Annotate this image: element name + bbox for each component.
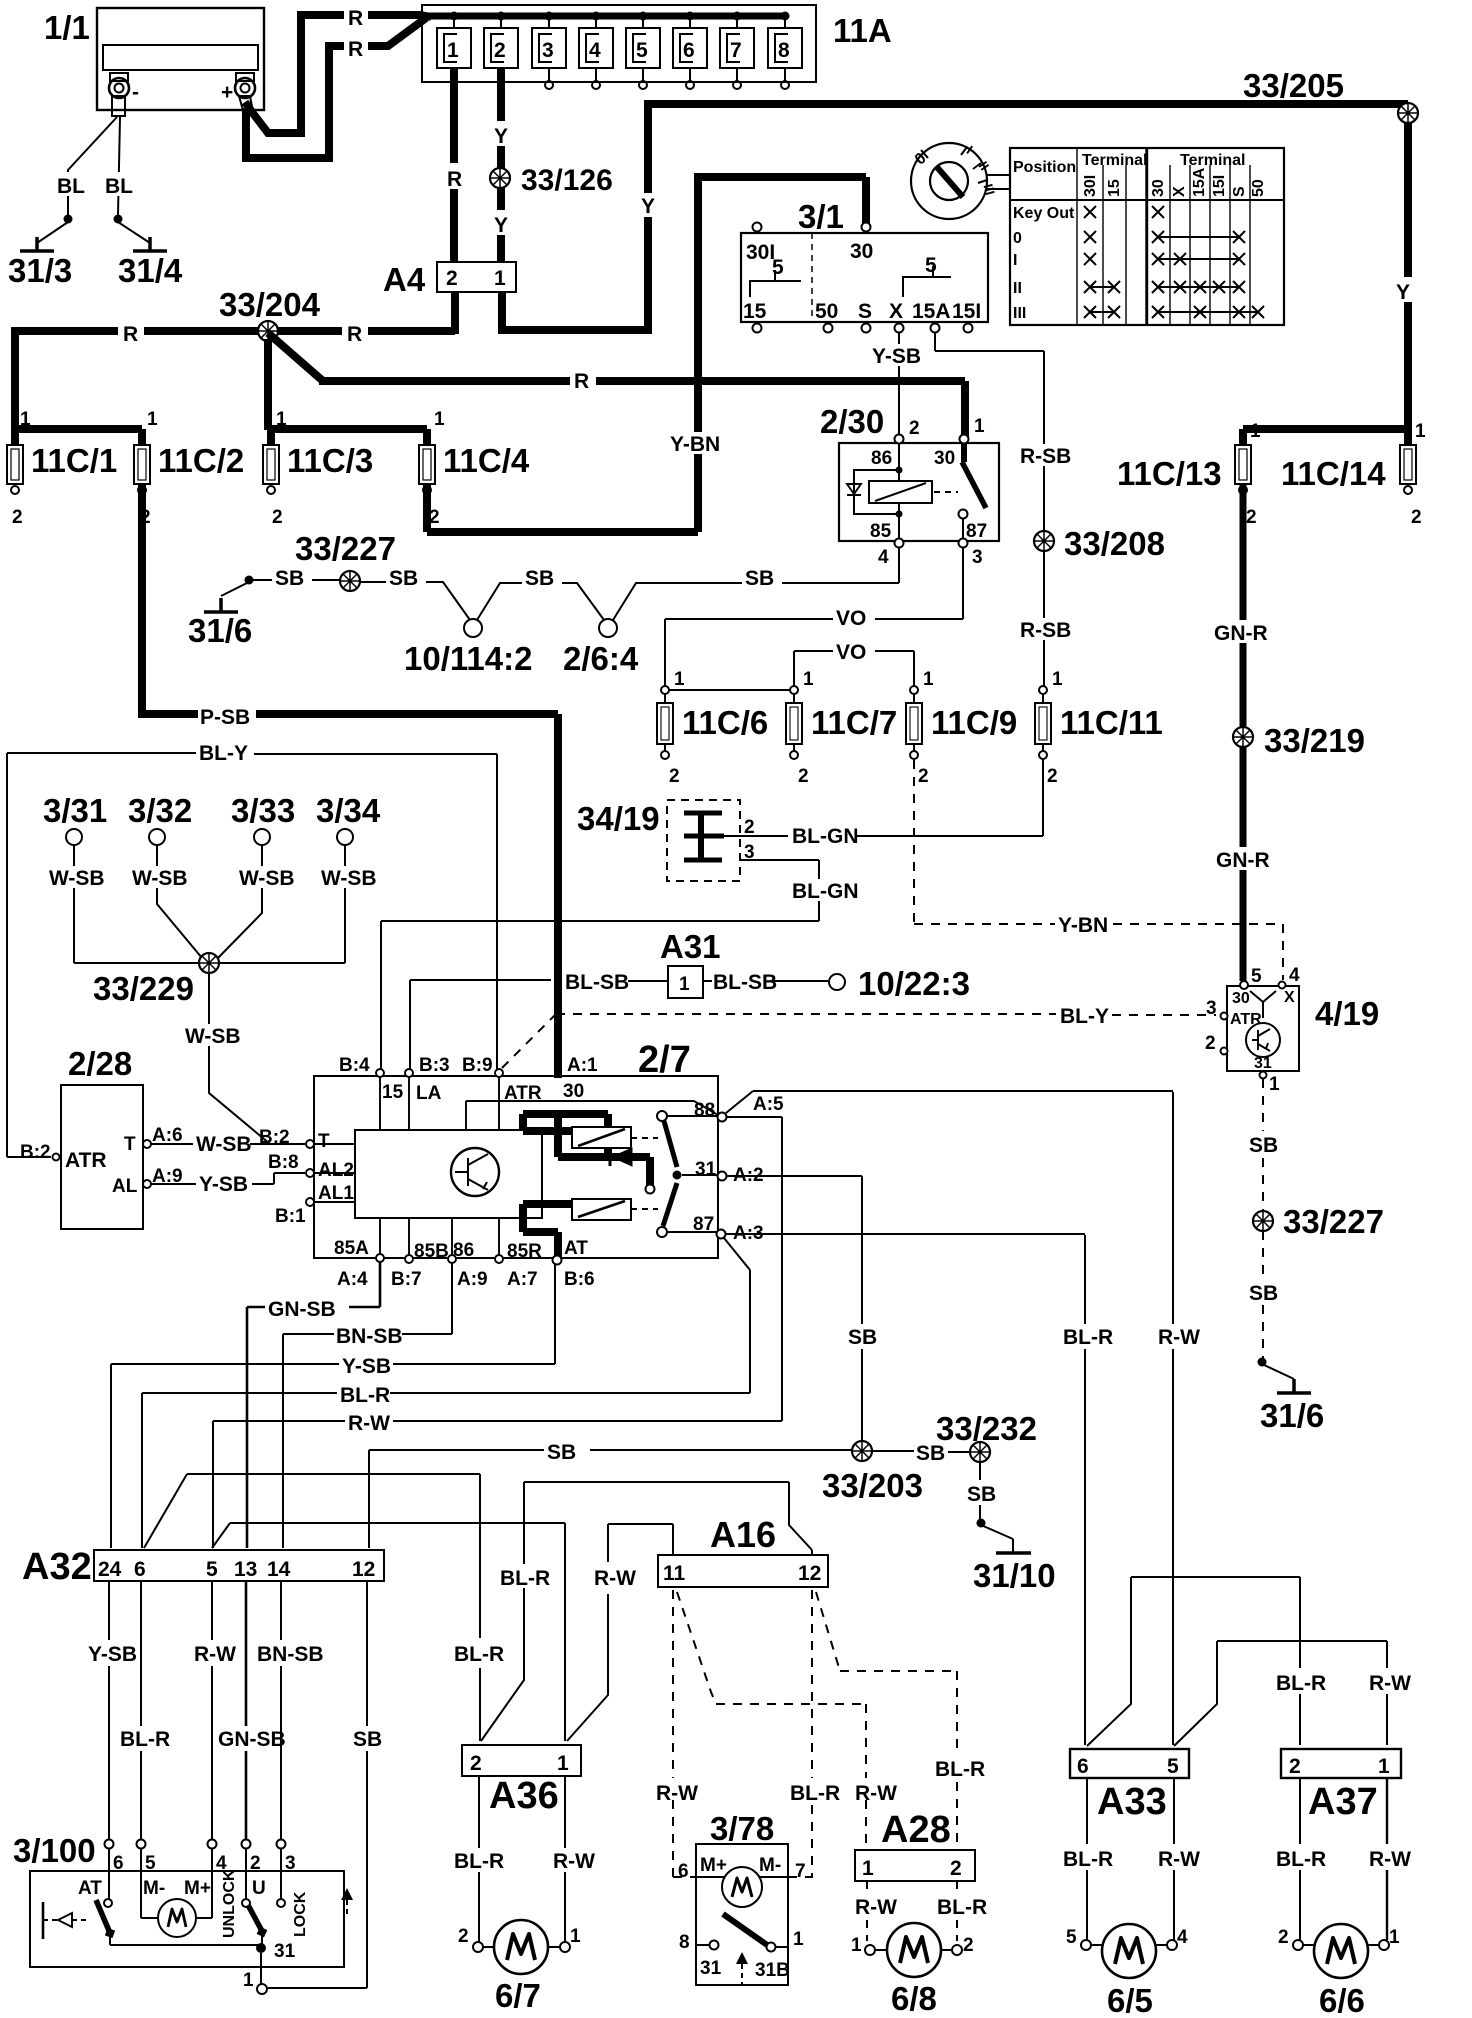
svg-text:SB: SB [353, 1728, 382, 1751]
ignition position table [1010, 148, 1284, 325]
svg-text:BL-R: BL-R [500, 1567, 550, 1590]
svg-text:86: 86 [871, 448, 892, 469]
wire R bus left [15, 327, 455, 335]
svg-text:11C/7: 11C/7 [811, 704, 897, 741]
svg-text:Y-BN: Y-BN [1058, 914, 1108, 937]
svg-text:33/227: 33/227 [1283, 1203, 1384, 1240]
svg-text:U: U [252, 1878, 266, 1899]
svg-text:M+: M+ [184, 1878, 211, 1899]
svg-text:2: 2 [1289, 1755, 1301, 1778]
svg-text:11C/9: 11C/9 [931, 704, 1017, 741]
wire R-W A32 pin5 to 3/100 pin4 [211, 1581, 213, 1839]
svg-text:30: 30 [934, 448, 955, 469]
svg-text:1: 1 [243, 1970, 254, 1991]
svg-text:8: 8 [778, 39, 790, 62]
splice 33/204 [258, 321, 278, 341]
svg-text:33/208: 33/208 [1064, 525, 1165, 562]
svg-text:13: 13 [234, 1558, 257, 1581]
wire R-W dashed A16 pin11 to A28 pin1 [677, 1592, 866, 1848]
svg-text:W-SB: W-SB [185, 1025, 241, 1048]
svg-text:X: X [1284, 989, 1295, 1006]
svg-text:VO: VO [836, 607, 866, 630]
svg-text:T: T [318, 1131, 330, 1152]
svg-text:4: 4 [1177, 1927, 1188, 1948]
svg-text:2: 2 [744, 817, 755, 838]
wire SB 33/232 to ground 31/10 [979, 1462, 981, 1520]
svg-text:A16: A16 [710, 1514, 776, 1555]
svg-text:BL: BL [105, 175, 133, 198]
svg-text:R-W: R-W [553, 1850, 595, 1873]
svg-text:BL-GN: BL-GN [792, 880, 859, 903]
wire R-W A33 pin5 to motor 6/5 [1173, 1778, 1175, 1940]
svg-text:31: 31 [1254, 1055, 1272, 1072]
svg-text:BL-SB: BL-SB [565, 971, 629, 994]
svg-text:AT: AT [564, 1238, 588, 1259]
svg-text:2/28: 2/28 [68, 1045, 132, 1082]
motor 6/7 [458, 1920, 581, 2014]
wire R fuse1 to A4 pin2 [450, 68, 458, 262]
svg-text:BL-SB: BL-SB [713, 971, 777, 994]
svg-text:1: 1 [447, 39, 459, 62]
svg-text:A:4: A:4 [337, 1269, 368, 1290]
fuse 11C/9 [906, 669, 1017, 787]
fuse 11C/6 [657, 669, 768, 787]
module 34/19 [577, 800, 755, 881]
node battery- left [64, 215, 73, 224]
wire R-W A36 pin1 to motor 6/7 [564, 1776, 566, 1942]
svg-text:11C/14: 11C/14 [1281, 455, 1386, 492]
svg-text:B:1: B:1 [275, 1206, 306, 1227]
fuse 11A:5 [626, 12, 660, 90]
connector A4 [383, 261, 516, 298]
svg-text:1: 1 [679, 974, 690, 995]
module 3/100 [13, 1832, 353, 1994]
svg-text:85R: 85R [507, 1241, 542, 1262]
svg-text:31: 31 [274, 1941, 296, 1962]
svg-text:BL-R: BL-R [937, 1896, 987, 1919]
svg-text:P-SB: P-SB [200, 706, 250, 729]
svg-text:M+: M+ [700, 1855, 727, 1876]
ring terminal 10/114:2 [464, 619, 482, 637]
svg-text:4: 4 [1289, 965, 1300, 986]
connector A28 [855, 1809, 975, 1881]
svg-text:15I: 15I [952, 300, 981, 323]
svg-text:1: 1 [803, 669, 814, 690]
svg-text:T: T [124, 1134, 136, 1155]
svg-text:10/22:3: 10/22:3 [858, 965, 970, 1002]
svg-text:6/6: 6/6 [1319, 1982, 1365, 2018]
svg-text:1: 1 [1378, 1755, 1390, 1778]
svg-text:11C/6: 11C/6 [682, 704, 768, 741]
svg-text:1/1: 1/1 [44, 9, 90, 46]
wire BN-SB 2/7 A:9 to A32 pin14 [283, 1263, 452, 1548]
svg-text:33/219: 33/219 [1264, 722, 1365, 759]
wire SB 2/7 A:2 to splice 33/203 [727, 1176, 862, 1448]
wire R-W 2/7 A:5 to A33 column [726, 1091, 1173, 1745]
fuse 11A:8 [768, 12, 802, 90]
svg-text:Terminal: Terminal [1180, 152, 1246, 169]
svg-text:2: 2 [250, 1853, 261, 1874]
ignition key symbol [911, 143, 1010, 219]
svg-text:1: 1 [862, 1857, 874, 1880]
svg-text:R-W: R-W [855, 1896, 897, 1919]
ring terminal 10/22:3 [829, 974, 845, 990]
thick bus 30 to links [523, 1114, 650, 1258]
svg-text:30I: 30I [746, 241, 775, 264]
svg-text:R: R [574, 370, 589, 393]
table X marks [1084, 206, 1264, 318]
svg-text:30: 30 [1150, 179, 1167, 197]
svg-text:10/114:2: 10/114:2 [404, 640, 532, 677]
svg-text:5: 5 [1167, 1755, 1179, 1778]
svg-text:W-SB: W-SB [239, 867, 295, 890]
svg-text:LOCK: LOCK [292, 1891, 309, 1937]
wire SB ground 31/6 to relay pin4 [252, 547, 899, 620]
fuse 11A:3 [532, 12, 566, 90]
wire R-W A33 pin5 to A37 pin1 jog [1174, 1641, 1387, 1746]
wire BL-R row to A32 pin6 [142, 1393, 750, 1548]
fuse 11C/3 [263, 409, 373, 528]
svg-text:R-SB: R-SB [1020, 619, 1071, 642]
svg-text:B:3: B:3 [419, 1055, 450, 1076]
svg-text:6: 6 [678, 1861, 689, 1882]
svg-text:BL-R: BL-R [790, 1782, 840, 1805]
svg-text:2: 2 [918, 766, 929, 787]
svg-text:11A: 11A [833, 12, 892, 49]
wire GN-SB 2/7 A:4 to A32 pin13 [247, 1262, 380, 1548]
svg-text:5: 5 [925, 254, 937, 277]
splice 33/205 [1398, 103, 1418, 123]
wire W-SB 3/31 [74, 845, 199, 963]
wire Y-BN dashed 11C/9 to 4/19 pin4 [914, 760, 1283, 980]
svg-text:6/7: 6/7 [495, 1977, 541, 2014]
svg-text:3/34: 3/34 [316, 792, 381, 829]
svg-text:UNLOCK: UNLOCK [221, 1869, 238, 1938]
svg-text:B:8: B:8 [268, 1152, 299, 1173]
svg-text:B:4: B:4 [339, 1055, 370, 1076]
svg-text:2: 2 [1278, 1927, 1289, 1948]
svg-text:11C/1: 11C/1 [31, 442, 117, 479]
svg-text:50: 50 [815, 300, 838, 323]
svg-text:A:6: A:6 [152, 1125, 183, 1146]
wire BN-SB A32 pin14 to 3/100 pin3 [280, 1581, 282, 1839]
svg-text:31/10: 31/10 [973, 1557, 1056, 1594]
svg-text:-: - [132, 81, 139, 104]
svg-text:2: 2 [950, 1857, 962, 1880]
svg-text:1: 1 [1269, 1074, 1280, 1095]
node SB at 31/6 [245, 576, 254, 585]
svg-text:7: 7 [730, 39, 742, 62]
svg-text:R-W: R-W [348, 1412, 390, 1435]
splice 33/208 [1034, 531, 1054, 551]
svg-text:31/3: 31/3 [8, 252, 72, 289]
wire BL battery- left [68, 117, 117, 215]
svg-text:A31: A31 [660, 928, 721, 965]
wire W-SB 3/32 [157, 845, 202, 958]
svg-text:1: 1 [494, 267, 506, 290]
svg-text:1: 1 [557, 1752, 569, 1775]
wire R-W dashed A16 pin11 to 3/78 pin6 [673, 1590, 698, 1877]
wire Y-SB 2/28 AL to 2/7 AL2 [151, 1173, 305, 1184]
svg-text:SB: SB [848, 1326, 877, 1349]
wire R down to 11C/1 [15, 327, 142, 430]
svg-text:BN-SB: BN-SB [257, 1643, 324, 1666]
wire BL-R A32 pin6 to 3/100 pin5 [140, 1581, 142, 1839]
svg-text:30: 30 [1232, 990, 1250, 1007]
svg-text:Y-SB: Y-SB [88, 1643, 137, 1666]
svg-text:SB: SB [1249, 1282, 1278, 1305]
wire Y-SB 3/1 pinX to relay 2/30 pin2 [898, 332, 900, 435]
wire BL-Y dashed 2/7 B:9 to 4/19 pin3 [502, 1014, 1216, 1068]
svg-text:3: 3 [285, 1853, 296, 1874]
svg-text:Y: Y [1396, 281, 1410, 304]
svg-text:BN-SB: BN-SB [336, 1325, 403, 1348]
svg-text:LA: LA [416, 1083, 442, 1104]
svg-text:33/205: 33/205 [1243, 67, 1344, 104]
wire W-SB 33/229 to 2/7 T [209, 973, 305, 1144]
svg-text:BL-R: BL-R [120, 1728, 170, 1751]
fuse 11A:4 [579, 12, 613, 90]
svg-text:1: 1 [434, 409, 445, 430]
svg-text:2: 2 [669, 766, 680, 787]
wire VO relay pin3 to 11C/6 [665, 548, 963, 686]
svg-text:R-W: R-W [656, 1782, 698, 1805]
svg-text:85A: 85A [334, 1238, 369, 1259]
svg-text:W-SB: W-SB [132, 867, 188, 890]
svg-text:1: 1 [570, 1926, 581, 1947]
svg-text:4/19: 4/19 [1315, 995, 1379, 1032]
fuse 11C/4 [419, 409, 530, 528]
svg-text:S: S [1231, 186, 1248, 197]
svg-text:R-W: R-W [1158, 1848, 1200, 1871]
svg-text:1: 1 [276, 409, 287, 430]
svg-text:W-SB: W-SB [49, 867, 105, 890]
svg-text:R-W: R-W [1369, 1672, 1411, 1695]
wire W-SB 3/34 [219, 845, 345, 963]
svg-text:3/33: 3/33 [231, 792, 295, 829]
svg-text:ATR: ATR [1230, 1011, 1262, 1028]
svg-text:W-SB: W-SB [321, 867, 377, 890]
wire BL-R dashed A28 pin2 to motor 6/8 [956, 1881, 958, 1941]
svg-text:30: 30 [850, 240, 873, 263]
diode inside 2/7 [612, 1148, 632, 1166]
svg-text:1: 1 [20, 409, 31, 430]
svg-text:BL-R: BL-R [1276, 1848, 1326, 1871]
wire R-W row to A32 pin5 [213, 1421, 782, 1548]
node battery- right [114, 215, 123, 224]
svg-text:31/6: 31/6 [188, 612, 252, 649]
svg-text:3/31: 3/31 [43, 792, 107, 829]
svg-text:SB: SB [745, 567, 774, 590]
svg-text:11C/11: 11C/11 [1060, 704, 1163, 741]
wire SB row A32 pin12 to 33/203 [369, 1450, 857, 1548]
splice 33/232 [970, 1442, 990, 1462]
wire R-W 2/7 A:5 branch to A32 pin5 [727, 1117, 782, 1421]
wire R battery+ to fusebox (upper) [245, 15, 431, 133]
svg-text:AL1: AL1 [318, 1183, 354, 1204]
svg-text:33/229: 33/229 [93, 970, 194, 1007]
svg-text:SB: SB [525, 567, 554, 590]
svg-text:31: 31 [695, 1159, 717, 1180]
fuse 11C/2 [134, 409, 244, 528]
svg-text:SB: SB [275, 567, 304, 590]
connector A37 [1281, 1749, 1401, 1823]
wire BL-R dashed A16 pin12 to A28 pin2 [816, 1592, 957, 1848]
wire BL-R A32 pin6 zig to A36 pin2 [144, 1474, 480, 1741]
svg-text:III: III [1013, 305, 1026, 322]
svg-text:A:9: A:9 [457, 1269, 488, 1290]
svg-text:3: 3 [542, 39, 554, 62]
svg-text:33/203: 33/203 [822, 1467, 923, 1504]
svg-text:R: R [348, 38, 363, 61]
connector A33 [1070, 1749, 1189, 1823]
svg-text:50: 50 [1250, 179, 1267, 197]
wire A4 pin2 to R bus [451, 292, 459, 334]
svg-text:2/6:4: 2/6:4 [563, 640, 639, 677]
svg-text:B:9: B:9 [462, 1055, 493, 1076]
svg-text:3: 3 [972, 547, 983, 568]
svg-text:31: 31 [700, 1958, 722, 1979]
connector A16 [658, 1514, 828, 1587]
svg-text:2: 2 [272, 507, 283, 528]
fuse 11A:2 [484, 12, 518, 69]
wire R battery+ to fusebox (lower) [246, 18, 426, 158]
module 2/7 [275, 1039, 784, 1290]
svg-text:AL2: AL2 [318, 1160, 354, 1181]
motor 6/6 [1278, 1924, 1400, 2018]
connector A32 [22, 1546, 384, 1588]
wire BL-GN 34/19 pin3 to 2/7 B:4 [381, 860, 819, 1070]
svg-text:31/4: 31/4 [118, 252, 183, 289]
svg-text:5: 5 [145, 1853, 156, 1874]
svg-text:15A: 15A [1191, 167, 1208, 197]
wire VO 11C/7 to 11C/9 [794, 651, 914, 686]
wire R-W A37 pin1 to motor 6/6 [1386, 1778, 1388, 1940]
ground 31/3 [20, 237, 54, 251]
svg-text:6: 6 [683, 39, 695, 62]
svg-text:11C/3: 11C/3 [287, 442, 373, 479]
svg-text:SB: SB [1249, 1134, 1278, 1157]
svg-text:A:5: A:5 [753, 1094, 784, 1115]
wire Y A4 pin1 up to top bus [498, 104, 648, 334]
fuse box 11A [422, 5, 892, 82]
svg-text:BL-R: BL-R [1063, 1326, 1113, 1349]
svg-text:GN-SB: GN-SB [218, 1728, 286, 1751]
splice 33/229 [199, 953, 219, 973]
svg-text:85B: 85B [414, 1241, 449, 1262]
ground 31/10 [981, 1525, 1013, 1553]
wire GN-R 11C/13 to 4/19 pin5 [1240, 484, 1247, 981]
svg-text:II: II [1013, 280, 1022, 297]
svg-text:SB: SB [547, 1441, 576, 1464]
svg-text:33/126: 33/126 [521, 164, 613, 197]
svg-text:11: 11 [663, 1562, 686, 1585]
svg-text:A:1: A:1 [567, 1055, 598, 1076]
ground 31/4 [133, 237, 167, 251]
wire R 33/204 to relay 2/30 pin1 [268, 333, 965, 437]
svg-text:15: 15 [382, 1082, 404, 1103]
svg-text:Key Out: Key Out [1013, 205, 1075, 222]
fuse 11C/14 [1281, 421, 1426, 528]
svg-text:VO: VO [836, 641, 866, 664]
svg-text:2: 2 [1205, 1033, 1216, 1054]
svg-text:R: R [348, 7, 363, 30]
wire R-SB 3/1 pin15A to 11C/11 [935, 332, 1044, 686]
fusible link bottom [572, 1199, 631, 1220]
svg-text:5: 5 [772, 256, 784, 279]
wire BL-R A36 pin2 to motor 6/7 [478, 1776, 480, 1942]
svg-text:SB: SB [389, 567, 418, 590]
svg-text:W-SB: W-SB [196, 1133, 252, 1156]
wire Y fuse2 to A4 pin1 [497, 68, 505, 262]
svg-text:1: 1 [974, 416, 985, 437]
wire GN-SB A32 pin13 to 3/100 pin2 [245, 1581, 248, 1839]
svg-text:R: R [347, 323, 362, 346]
wire bus 11C/13 to 11C/14 [1243, 425, 1408, 433]
svg-text:2: 2 [470, 1752, 482, 1775]
wire BL-R dashed A16 pin12 to 3/78 pin7 [788, 1590, 813, 1877]
svg-text:2: 2 [429, 507, 440, 528]
svg-text:33/227: 33/227 [295, 530, 396, 567]
wire to ground 31/3 [37, 222, 68, 243]
wire BL-R A16 pin12 to A36 pin2 [481, 1482, 812, 1741]
svg-text:1: 1 [1389, 1927, 1400, 1948]
svg-text:5: 5 [1066, 1927, 1077, 1948]
wire P-SB 11C/2 to 2/7 pin30 [138, 484, 558, 1078]
svg-text:A36: A36 [489, 1775, 559, 1817]
fuse 11A:1 [437, 12, 471, 69]
svg-text:Y-SB: Y-SB [342, 1355, 391, 1378]
module 4/19 [1205, 965, 1379, 1095]
svg-text:5: 5 [636, 39, 648, 62]
svg-text:1: 1 [793, 1929, 804, 1950]
svg-text:AL: AL [112, 1176, 138, 1197]
svg-text:3/100: 3/100 [13, 1832, 96, 1869]
fuse 11A:6 [673, 12, 707, 90]
fuse 11C/11 [1035, 669, 1163, 787]
fuse 11A:7 [720, 12, 754, 90]
svg-text:3: 3 [1206, 998, 1217, 1019]
connector A31 [660, 928, 721, 998]
svg-text:R-W: R-W [855, 1782, 897, 1805]
svg-text:85: 85 [870, 521, 892, 542]
module 3/78 [678, 1810, 806, 1985]
svg-text:15: 15 [743, 300, 767, 323]
connector A36 [462, 1745, 581, 1817]
svg-text:30: 30 [563, 1081, 584, 1102]
svg-text:AT: AT [78, 1878, 102, 1899]
svg-text:2: 2 [494, 39, 506, 62]
svg-text:X: X [889, 300, 903, 323]
svg-text:X: X [1171, 186, 1188, 197]
svg-text:31B: 31B [755, 1960, 790, 1981]
svg-text:+: + [221, 81, 233, 104]
wire Y-BN 11C/4 to ignition 3/1 pin30 [427, 177, 866, 532]
wire BL-SB 2/7 B:3 to A31 to 10/22:3 [410, 980, 828, 1070]
svg-text:6/8: 6/8 [891, 1980, 937, 2017]
svg-text:87: 87 [693, 1214, 714, 1235]
svg-text:GN-R: GN-R [1214, 622, 1268, 645]
svg-text:S: S [858, 300, 872, 323]
svg-text:5: 5 [1251, 966, 1262, 987]
svg-text:A:7: A:7 [507, 1269, 538, 1290]
ring terminal 2/6:4 [599, 619, 617, 637]
svg-text:11C/4: 11C/4 [443, 442, 530, 479]
svg-text:1: 1 [1415, 421, 1426, 442]
svg-text:M-: M- [143, 1878, 165, 1899]
svg-text:BL-R: BL-R [340, 1384, 390, 1407]
svg-text:R-SB: R-SB [1020, 445, 1071, 468]
